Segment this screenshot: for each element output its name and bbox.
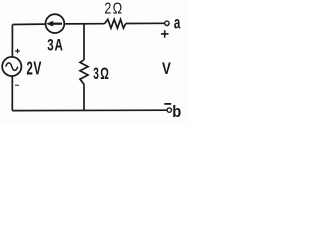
svg-text:3: 3 <box>93 64 99 83</box>
svg-text:V: V <box>162 60 171 78</box>
svg-text:V: V <box>33 57 41 78</box>
svg-text:Ω: Ω <box>100 64 109 83</box>
svg-text:b: b <box>172 103 181 121</box>
svg-text:2: 2 <box>104 0 111 17</box>
svg-text:3: 3 <box>47 37 53 55</box>
svg-text:Ω: Ω <box>113 0 123 17</box>
svg-text:A: A <box>55 37 63 55</box>
svg-text:2: 2 <box>27 57 33 78</box>
svg-text:a: a <box>174 13 181 33</box>
